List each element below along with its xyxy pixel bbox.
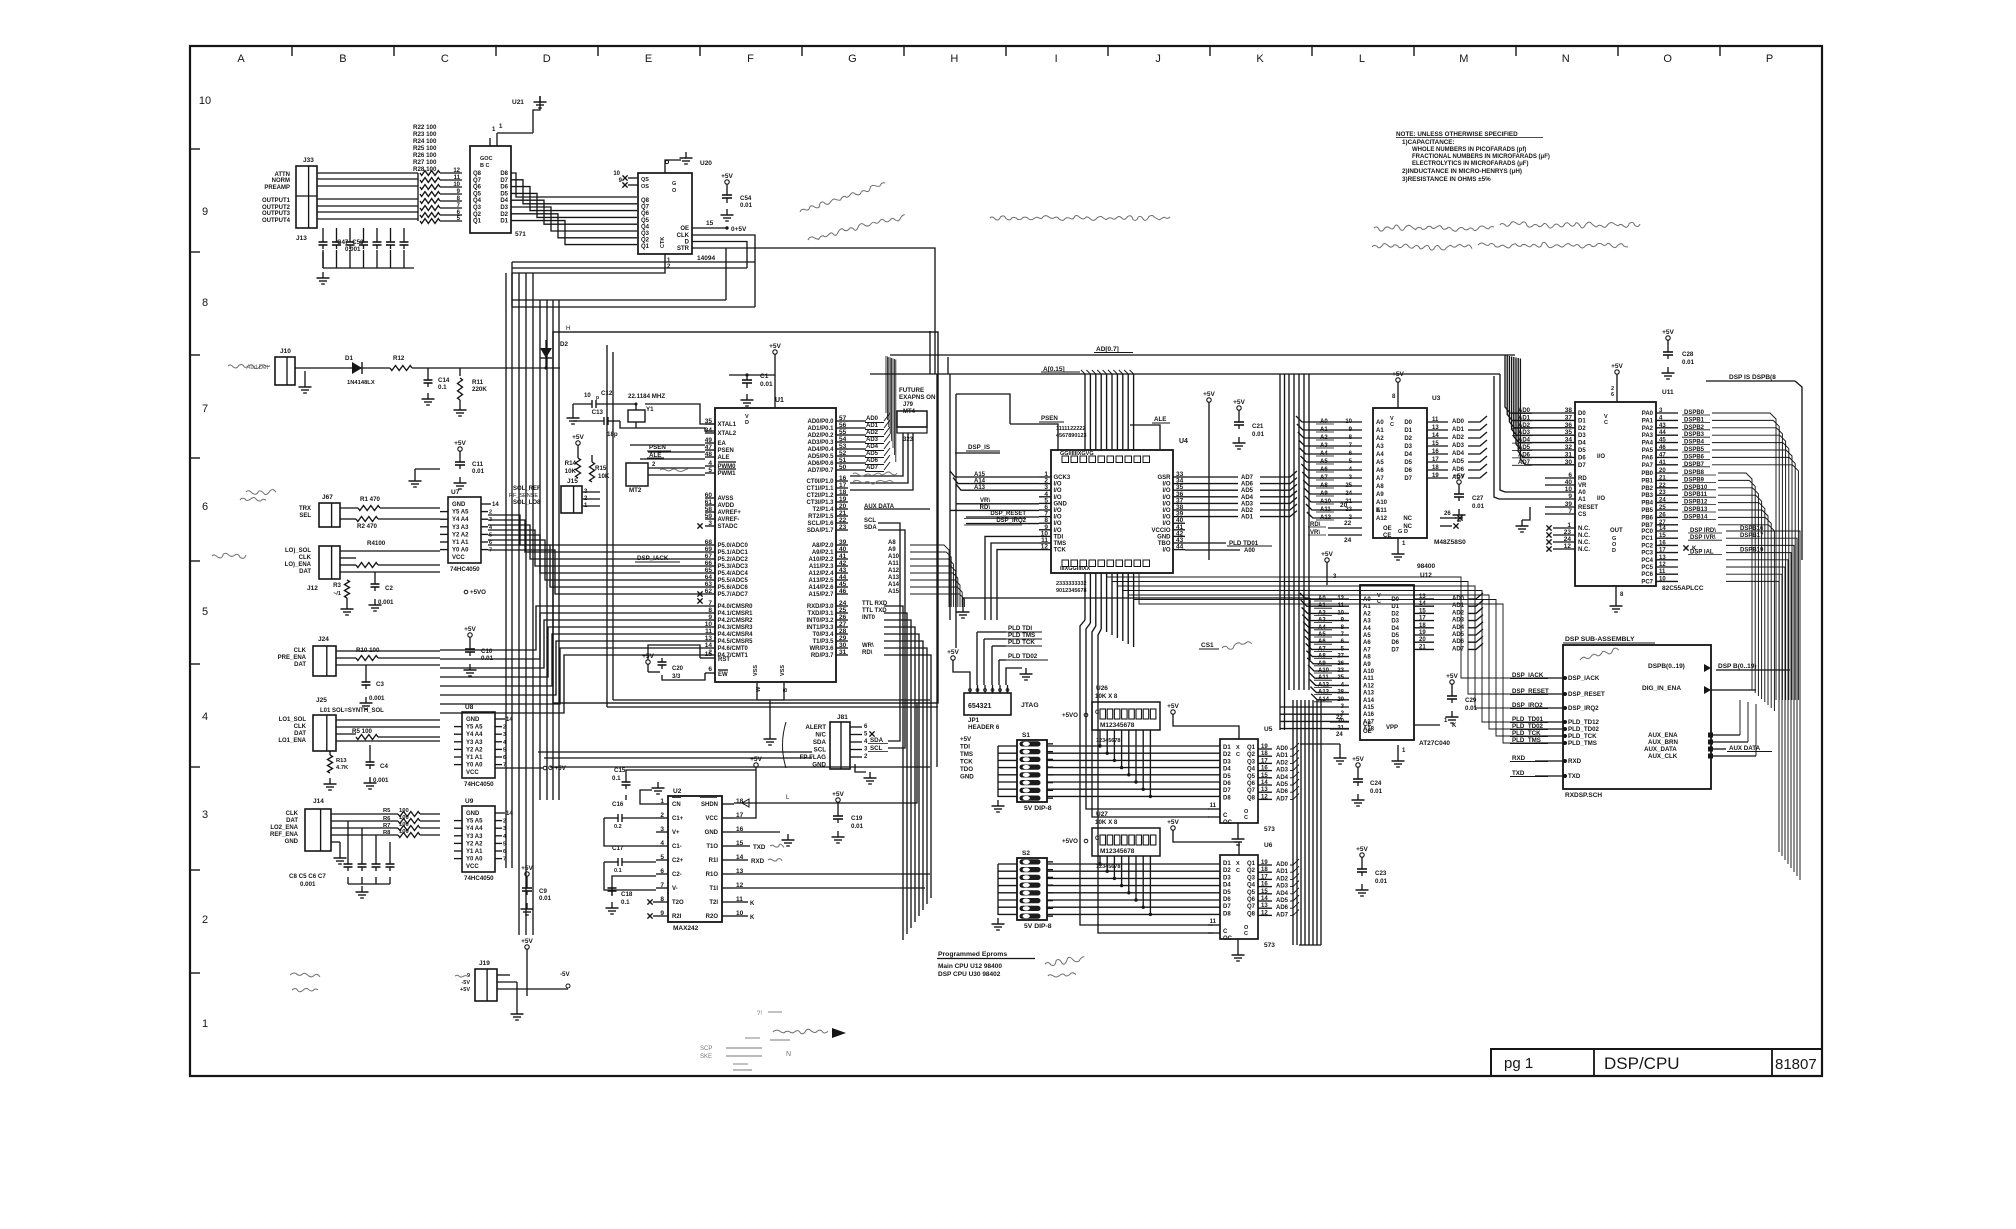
svg-text:Q7: Q7 — [641, 205, 650, 211]
svg-text:4: 4 — [708, 460, 712, 467]
svg-text:13: 13 — [1261, 903, 1268, 909]
svg-text:AD1: AD1 — [1452, 427, 1465, 433]
svg-text:R15: R15 — [595, 465, 607, 472]
svg-text:A10: A10 — [888, 554, 900, 560]
svg-text:46: 46 — [839, 588, 847, 595]
frame column letters A-P — [237, 53, 1773, 65]
svg-text:10K: 10K — [598, 473, 610, 480]
svg-text:M12345678: M12345678 — [1100, 848, 1135, 855]
svg-text:2: 2 — [660, 812, 664, 819]
interconnect rails below U20 — [512, 248, 755, 307]
svg-text:Q4: Q4 — [641, 224, 650, 230]
drawing frame border — [190, 46, 1822, 1076]
JP1 to PLD wires — [977, 625, 1048, 685]
svg-text:RST: RST — [718, 657, 730, 663]
svg-text:+5V: +5V — [721, 173, 733, 180]
svg-text:28: 28 — [839, 628, 847, 635]
svg-text:PA5: PA5 — [1642, 448, 1654, 454]
U26 pins down — [1096, 730, 1152, 798]
svg-text:AD2: AD2 — [1452, 435, 1465, 441]
svg-text:+5V: +5V — [572, 434, 584, 441]
ground above U21 — [492, 96, 547, 133]
svg-text:62: 62 — [705, 588, 713, 595]
svg-text:C1: C1 — [760, 373, 769, 380]
svg-text:36: 36 — [1565, 422, 1573, 429]
svg-text:19: 19 — [1261, 860, 1268, 866]
svg-text:9: 9 — [1568, 493, 1572, 500]
svg-text:18: 18 — [736, 798, 744, 805]
capacitor C18 0.1 — [606, 876, 657, 914]
svg-text:VCC: VCC — [466, 770, 479, 776]
vertical A-bus channel — [1280, 374, 1309, 730]
svg-text:Y3 A3: Y3 A3 — [466, 740, 483, 746]
svg-text:DSP_IRQ2: DSP_IRQ2 — [1568, 705, 1599, 712]
svg-text:C1+: C1+ — [672, 816, 684, 822]
svg-text:21: 21 — [1419, 644, 1426, 650]
svg-text:AD6: AD6 — [1276, 789, 1289, 795]
svg-text:65: 65 — [705, 567, 713, 574]
svg-text:AD3: AD3 — [1276, 768, 1289, 774]
svg-text:AD6: AD6 — [866, 458, 879, 464]
title block name text — [1604, 1054, 1680, 1073]
ground below U4 — [957, 598, 1311, 660]
AD bus fan from U1 — [848, 356, 896, 472]
svg-text:I/O: I/O — [1162, 548, 1170, 554]
svg-text:CS: CS — [1578, 512, 1586, 518]
svg-text:+5V: +5V — [769, 343, 781, 350]
svg-text:11: 11 — [1659, 569, 1666, 575]
svg-text:14: 14 — [1261, 780, 1268, 786]
bottom handwritten marks — [700, 1011, 846, 1070]
svg-text:CLK: CLK — [677, 233, 690, 239]
DSP block right wires — [0, 0, 1, 1]
svg-text:D: D — [1612, 548, 1616, 554]
svg-text:2: 2 — [202, 914, 208, 926]
svg-text:D1: D1 — [345, 355, 353, 362]
svg-text:46: 46 — [1659, 445, 1666, 451]
svg-text:C: C — [1244, 931, 1248, 937]
svg-text:OE: OE — [1383, 526, 1392, 532]
svg-text:OUTPUT4: OUTPUT4 — [262, 218, 291, 224]
svg-text:S2: S2 — [1022, 850, 1030, 857]
svg-text:A8/P2.0: A8/P2.0 — [812, 543, 834, 549]
svg-text:A10/P2.2: A10/P2.2 — [808, 557, 834, 563]
net label DSP_IS — [955, 444, 1000, 453]
U4 left pins — [1039, 471, 1071, 554]
svg-text:A12/P2.4: A12/P2.4 — [808, 571, 834, 577]
svg-text:Y1 A1: Y1 A1 — [466, 849, 483, 855]
svg-text:6: 6 — [202, 501, 208, 513]
U3 control pins — [1308, 502, 1362, 544]
svg-text:DSP_RESET: DSP_RESET — [1512, 688, 1549, 695]
svg-text:I/O: I/O — [1162, 521, 1170, 527]
svg-text:PLD TMS: PLD TMS — [1008, 632, 1035, 639]
svg-text:I/O: I/O — [1162, 488, 1170, 494]
U1 right pins P2 A8-A15 — [808, 539, 899, 598]
svg-text:JTAG: JTAG — [1021, 702, 1039, 709]
svg-text:B: B — [339, 53, 346, 65]
svg-text:22: 22 — [839, 517, 847, 524]
svg-text:ALE: ALE — [718, 455, 730, 461]
svg-text:U2: U2 — [673, 788, 682, 795]
svg-text:VPP: VPP — [1386, 725, 1398, 731]
svg-text:12: 12 — [453, 168, 460, 174]
J81 pins — [850, 724, 888, 784]
svg-text:I: I — [1055, 53, 1058, 65]
svg-text:AD5: AD5 — [1241, 488, 1254, 494]
svg-text:A6: A6 — [1363, 640, 1371, 646]
IC U21 (571 latch) — [470, 99, 526, 238]
svg-text:N/C: N/C — [815, 732, 826, 739]
svg-text:A2: A2 — [1376, 436, 1384, 442]
svg-text:AD5/P0.5: AD5/P0.5 — [807, 454, 834, 460]
svg-text:Y1 A1: Y1 A1 — [466, 755, 483, 761]
svg-text:AD2: AD2 — [1241, 508, 1254, 514]
svg-text:P4.6/CMT0: P4.6/CMT0 — [718, 646, 749, 652]
svg-text:VSS: VSS — [780, 665, 786, 676]
DIP switch S2 — [1017, 850, 1053, 920]
svg-text:+5VO: +5VO — [470, 589, 486, 596]
svg-text:AD2/P0.2: AD2/P0.2 — [807, 433, 834, 439]
svg-text:15: 15 — [1261, 773, 1268, 779]
svg-text:16: 16 — [1659, 540, 1666, 546]
svg-text:8: 8 — [202, 297, 208, 309]
svg-text:OUTPUT1: OUTPUT1 — [262, 198, 291, 204]
svg-text:PLD_TD02: PLD_TD02 — [1512, 723, 1544, 730]
svg-text:PA4: PA4 — [1642, 441, 1654, 447]
svg-text:15: 15 — [705, 651, 713, 658]
svg-text:AD4: AD4 — [1241, 495, 1254, 501]
svg-text:Q3: Q3 — [1247, 759, 1256, 765]
svg-text:AD2: AD2 — [1276, 760, 1289, 766]
svg-text:+5VO: +5VO — [1062, 838, 1078, 845]
svg-text:AD0: AD0 — [1452, 419, 1465, 425]
capacitor C19 0.01 — [832, 791, 864, 843]
svg-text:SCL: SCL — [870, 745, 883, 752]
capacitor C29 0.01 — [1446, 673, 1478, 723]
svg-text:D7: D7 — [1404, 476, 1412, 482]
svg-text:J: J — [1155, 53, 1161, 65]
svg-text:D7: D7 — [1578, 463, 1586, 469]
svg-text:47: 47 — [705, 444, 713, 451]
svg-text:R22 100: R22 100 — [413, 124, 437, 131]
vertical rails above U1 area — [930, 331, 1010, 767]
svg-text:D: D — [543, 53, 551, 65]
svg-text:PA1: PA1 — [1642, 418, 1654, 424]
capacitor C28 0.01 — [1662, 329, 1695, 379]
capacitor C15 0.1 — [612, 767, 756, 800]
svg-text:RF_SENSE: RF_SENSE — [509, 493, 538, 499]
svg-text:PC3: PC3 — [1641, 551, 1653, 557]
svg-text:PLD TCK: PLD TCK — [1008, 639, 1035, 646]
svg-text:60: 60 — [705, 492, 713, 499]
svg-text:I/O: I/O — [1162, 515, 1170, 521]
svg-text:26: 26 — [1337, 661, 1344, 667]
svg-text:26: 26 — [1444, 511, 1451, 517]
component MT2 — [626, 462, 705, 494]
svg-text:I/O: I/O — [1054, 521, 1062, 527]
svg-text:I/O: I/O — [1597, 496, 1605, 502]
svg-text:C23: C23 — [1375, 870, 1387, 877]
svg-text:GND: GND — [466, 811, 480, 817]
IC U9 74HC4050 — [454, 798, 513, 882]
svg-text:25: 25 — [1659, 505, 1666, 511]
svg-text:32: 32 — [1565, 444, 1573, 451]
connector J81 — [783, 714, 851, 769]
svg-text:VCC: VCC — [452, 555, 465, 561]
svg-text:PA0: PA0 — [1642, 411, 1654, 417]
svg-text:PLD TDI: PLD TDI — [1008, 625, 1032, 632]
U20 no-connect pins with X — [613, 171, 638, 188]
svg-text:SCL/P1.6: SCL/P1.6 — [807, 521, 834, 527]
svg-text:45: 45 — [839, 581, 847, 588]
svg-text:GGIIIIIIXGVG: GGIIIIIIXGVG — [1060, 451, 1094, 457]
capacitor C1 0.01 and +5V — [729, 343, 782, 408]
svg-text:31: 31 — [839, 649, 847, 656]
svg-text:R25 100: R25 100 — [413, 145, 437, 152]
svg-text:ALERT: ALERT — [805, 724, 826, 731]
svg-text:U26: U26 — [1096, 685, 1108, 692]
U1 RST EW pins — [705, 651, 731, 678]
net labels SOL_REF RF_SENSE SOL_LOG — [509, 486, 541, 506]
svg-text:C10: C10 — [481, 648, 493, 655]
svg-text:571: 571 — [515, 231, 526, 238]
svg-text:PC5: PC5 — [1641, 565, 1653, 571]
svg-text:A14: A14 — [888, 582, 900, 588]
svg-text:12: 12 — [1337, 596, 1344, 602]
long rails below module box — [538, 752, 930, 767]
U4 left signal wires — [950, 471, 1039, 525]
svg-text:PB5: PB5 — [1641, 508, 1653, 514]
svg-text:J24: J24 — [318, 636, 329, 643]
svg-text:A1: A1 — [1376, 428, 1384, 434]
connector J67 with R1,R2 — [299, 494, 440, 530]
U1 right pins P3 — [806, 600, 887, 659]
svg-text:A5: A5 — [1363, 633, 1371, 639]
svg-text:25: 25 — [1337, 675, 1344, 681]
svg-text:C19: C19 — [851, 815, 863, 822]
A bus fan into U4 top — [1056, 370, 1134, 450]
svg-text:C47 -C53: C47 -C53 — [337, 239, 364, 246]
svg-text:0.2: 0.2 — [614, 824, 622, 830]
resistor R12 — [362, 355, 560, 371]
svg-text:27: 27 — [839, 621, 847, 628]
svg-text:A8: A8 — [1363, 655, 1371, 661]
svg-text:T1O: T1O — [706, 844, 718, 850]
svg-text:WR/P3.6: WR/P3.6 — [809, 646, 834, 652]
svg-text:0.01: 0.01 — [1465, 705, 1478, 712]
svg-text:MAX242: MAX242 — [673, 925, 699, 932]
svg-text:M48Z58S0: M48Z58S0 — [1434, 539, 1466, 546]
svg-text:TDI: TDI — [1054, 534, 1064, 540]
svg-text:A0: A0 — [1376, 420, 1384, 426]
svg-text:Q8: Q8 — [1247, 911, 1256, 917]
title block number text — [1775, 1056, 1817, 1073]
svg-text:AD4/P0.4: AD4/P0.4 — [807, 447, 834, 453]
U2 CN ground — [640, 782, 665, 804]
svg-text:34: 34 — [1565, 437, 1573, 444]
svg-text:9: 9 — [660, 910, 664, 917]
svg-text:HEADER 6: HEADER 6 — [968, 724, 1000, 731]
svg-text:U20: U20 — [700, 160, 712, 167]
svg-text:A15/P2.7: A15/P2.7 — [808, 592, 834, 598]
svg-text:T1/P3.5: T1/P3.5 — [812, 639, 834, 645]
svg-text:FUTURE: FUTURE — [899, 387, 924, 394]
svg-text:R14: R14 — [565, 460, 577, 467]
svg-text:1: 1 — [202, 1018, 208, 1030]
svg-text:PLD_TD01: PLD_TD01 — [1512, 716, 1544, 723]
svg-text:STADC: STADC — [718, 524, 739, 530]
svg-text:AD0: AD0 — [1452, 596, 1465, 602]
svg-text:K: K — [1452, 723, 1457, 729]
svg-text:U3: U3 — [1432, 395, 1441, 402]
U11 PA pins to DSPB0-7 — [1642, 408, 1799, 700]
svg-text:LO1_ENA: LO1_ENA — [278, 738, 306, 744]
svg-text:A9: A9 — [1363, 662, 1371, 668]
svg-text:GND: GND — [1157, 534, 1171, 540]
svg-text:VSS: VSS — [753, 665, 759, 676]
svg-text:RT2/P1.5: RT2/P1.5 — [808, 514, 834, 520]
svg-text:R6: R6 — [383, 816, 391, 822]
diode D2 — [540, 340, 568, 370]
svg-text:SOL_LO8: SOL_LO8 — [513, 500, 541, 506]
svg-text:26: 26 — [1659, 512, 1666, 518]
svg-text:STR: STR — [677, 246, 690, 252]
capacitor C11 0.01 with +5V — [454, 440, 485, 489]
svg-text:P4.4/CMSR4: P4.4/CMSR4 — [718, 632, 754, 638]
svg-text:D2: D2 — [500, 212, 508, 218]
svg-text:C54: C54 — [740, 195, 752, 202]
svg-text:22.1184 MHZ: 22.1184 MHZ — [628, 393, 665, 400]
U2 GND wire — [734, 832, 795, 846]
svg-text:RXD: RXD — [751, 858, 765, 865]
svg-text:P4.0/CMSR0: P4.0/CMSR0 — [718, 604, 754, 610]
resistor pack U26 — [1092, 685, 1160, 730]
svg-text:3: 3 — [708, 520, 712, 527]
svg-text:D1: D1 — [1578, 418, 1586, 424]
svg-text:J15: J15 — [567, 478, 578, 485]
svg-text:Y0 A0: Y0 A0 — [466, 763, 483, 769]
capacitor C16 — [604, 801, 656, 846]
handwritten note lines (right) — [1372, 222, 1640, 250]
svg-text:15: 15 — [1432, 441, 1439, 447]
svg-text:I/O: I/O — [1162, 508, 1170, 514]
svg-text:JP1: JP1 — [968, 717, 980, 724]
svg-text:18: 18 — [839, 489, 847, 496]
svg-text:J25: J25 — [316, 697, 327, 704]
svg-text:6: 6 — [1611, 392, 1614, 398]
svg-text:AD2: AD2 — [866, 430, 879, 436]
svg-text:+5V: +5V — [960, 736, 972, 743]
svg-text:+5V: +5V — [832, 791, 844, 798]
svg-text:C: C — [1244, 815, 1248, 821]
svg-text:PLD_TCK: PLD_TCK — [1512, 730, 1541, 737]
svg-text:PA2: PA2 — [1642, 426, 1654, 432]
svg-text:23: 23 — [1564, 529, 1572, 536]
svg-text:B C: B C — [480, 163, 490, 169]
svg-text:17: 17 — [1432, 457, 1439, 463]
svg-text:24: 24 — [1345, 491, 1352, 497]
svg-text:-5V: -5V — [560, 971, 571, 978]
svg-text:573: 573 — [1264, 942, 1275, 949]
svg-text:SHDN: SHDN — [701, 802, 718, 808]
svg-text:C14: C14 — [438, 377, 450, 384]
svg-text:AVSS: AVSS — [718, 496, 734, 502]
frame row numbers 1-10 — [199, 95, 211, 1030]
svg-text:12345678: 12345678 — [1096, 738, 1120, 744]
future expansion header J79 — [850, 387, 936, 490]
svg-text:U1: U1 — [775, 397, 784, 404]
svg-text:J13: J13 — [296, 235, 307, 242]
svg-text:AD1/P0.1: AD1/P0.1 — [807, 426, 834, 432]
connector J10 Aud Det — [228, 348, 350, 393]
svg-text:WHOLE NUMBERS IN PICOFARADS (p: WHOLE NUMBERS IN PICOFARADS (pf) — [1412, 147, 1526, 153]
svg-text:PB1: PB1 — [1641, 478, 1653, 484]
resistor labels R22-R28 — [413, 124, 437, 173]
svg-text:74HC4050: 74HC4050 — [464, 781, 494, 788]
svg-text:I/O: I/O — [1054, 488, 1062, 494]
svg-text:A2: A2 — [1363, 611, 1371, 617]
svg-text:C9: C9 — [539, 888, 547, 895]
U11 power pin — [1611, 363, 1624, 402]
svg-text:D5: D5 — [1404, 460, 1412, 466]
svg-text:C: C — [1223, 929, 1228, 935]
svg-text:Q5: Q5 — [641, 218, 650, 224]
svg-text:CS1: CS1 — [1201, 642, 1214, 649]
svg-text:D1: D1 — [500, 219, 508, 225]
svg-text:D4: D4 — [1404, 452, 1412, 458]
svg-text:Q8: Q8 — [1247, 795, 1256, 801]
svg-text:13: 13 — [705, 635, 713, 642]
svg-text:SDA: SDA — [870, 737, 884, 744]
svg-text:H: H — [566, 326, 570, 332]
svg-text:4567890123: 4567890123 — [1056, 433, 1087, 439]
svg-text:Q2: Q2 — [473, 212, 482, 218]
svg-text:AD3: AD3 — [866, 437, 879, 443]
resistor R11 220K — [454, 368, 488, 416]
svg-text:+5V: +5V — [521, 938, 533, 945]
svg-text:58: 58 — [705, 506, 713, 513]
U2 R1O long wire — [734, 873, 930, 875]
wires J33 to resistor array — [317, 173, 418, 221]
svg-text:2)INDUCTANCE IN MICRO-HENRYS (: 2)INDUCTANCE IN MICRO-HENRYS (μH) — [1402, 168, 1522, 175]
svg-text:0.01: 0.01 — [851, 823, 864, 830]
DIP switch S1 — [1017, 732, 1053, 802]
svg-text:R3: R3 — [333, 582, 341, 589]
svg-text:43: 43 — [1659, 423, 1666, 429]
svg-text:CE: CE — [1363, 722, 1371, 728]
svg-text:RXD: RXD — [1512, 755, 1526, 762]
svg-text:C2-: C2- — [672, 872, 682, 878]
U2 R1I RXD — [734, 858, 782, 865]
svg-text:Y2 A2: Y2 A2 — [466, 841, 483, 847]
svg-text:15: 15 — [706, 220, 714, 227]
capacitor C21 and +5V — [1203, 391, 1264, 560]
svg-text:AD1: AD1 — [1276, 753, 1289, 759]
U27 pins down — [1096, 856, 1152, 916]
svg-text:10K: 10K — [565, 468, 577, 475]
svg-text:4: 4 — [202, 711, 208, 723]
svg-text:C24: C24 — [1370, 780, 1382, 787]
svg-text:23: 23 — [839, 524, 847, 531]
svg-text:D2: D2 — [560, 341, 568, 348]
svg-text:0.01: 0.01 — [760, 381, 773, 388]
svg-text:PLD TD02: PLD TD02 — [1008, 653, 1038, 660]
U1 left pins upper — [705, 418, 742, 530]
svg-text:24: 24 — [1564, 536, 1572, 543]
DSP block right pins — [1642, 663, 1790, 760]
svg-text:A12: A12 — [1363, 683, 1375, 689]
